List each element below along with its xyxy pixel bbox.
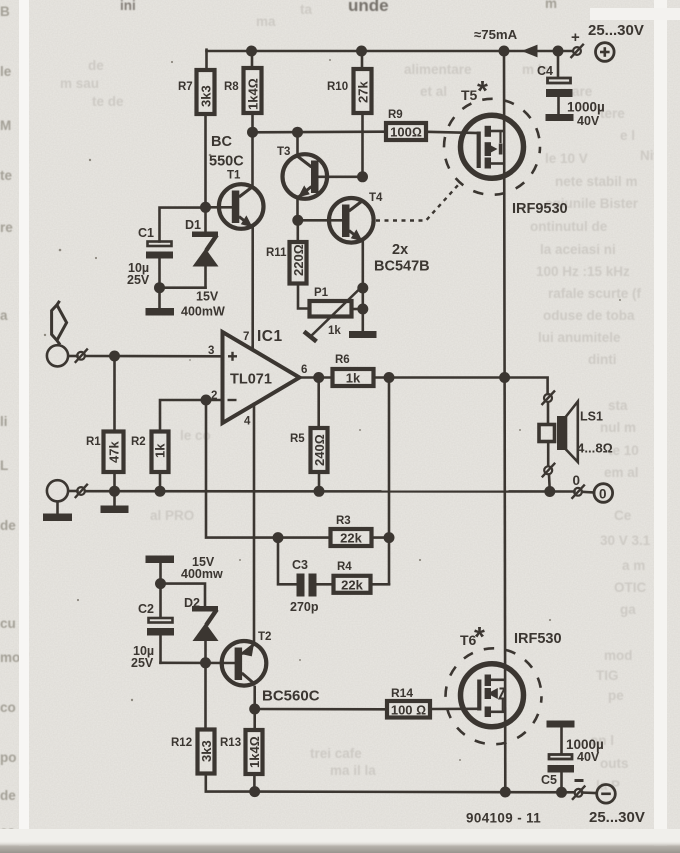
resistor R10 27k [327, 69, 372, 113]
resistor R3 22k [331, 515, 372, 546]
wire: C1 bottom lead [158, 258, 161, 288]
svg-text:100 Ω: 100 Ω [391, 703, 426, 718]
svg-text:R1: R1 [86, 436, 101, 448]
connector below LS1 [542, 463, 555, 478]
wire: R1 bottom lead [113, 472, 116, 491]
transistor T3 BC547B npn (mirrored) [277, 146, 327, 199]
right column white strip [654, 0, 667, 853]
wire: ground bar to C2/D2 node [159, 563, 162, 584]
svg-text:15V: 15V [196, 290, 219, 304]
svg-text:+: + [571, 29, 580, 46]
wire: top positive rail [207, 50, 573, 53]
node: R2 bottom on 0V rail [155, 486, 166, 497]
svg-text:rafale scurte (f: rafale scurte (f [548, 286, 642, 301]
transistor T4 BC547B npn [329, 192, 430, 275]
svg-text:ma il la: ma il la [330, 763, 376, 778]
node: LS1 return on 0V rail [544, 486, 555, 497]
connector at negative terminal [572, 786, 585, 800]
svg-text:T3: T3 [277, 146, 290, 158]
svg-text:27k: 27k [355, 81, 370, 103]
wire: IC1 output to R6 [299, 376, 331, 379]
svg-text:2: 2 [211, 390, 217, 402]
wire: lower jack ground stub [56, 502, 59, 515]
svg-text:BC547B: BC547B [374, 259, 430, 275]
svg-text:40V: 40V [577, 114, 600, 128]
wire: R11 node to T4 base [298, 219, 344, 222]
wire: R1 top lead [113, 356, 116, 431]
wire: C1/D1 ground link [160, 286, 206, 289]
positive supply terminal 25...30V [571, 22, 644, 61]
wire: C3 to R4 [316, 583, 332, 586]
svg-text:e l: e l [620, 128, 635, 143]
wire: IC1 pin4 down to T2 emitter [253, 404, 256, 642]
svg-text:22k: 22k [341, 577, 363, 592]
svg-text:R7: R7 [178, 81, 193, 93]
left page margin white strip [19, 0, 29, 853]
wire: T2 collector down to R13 node [253, 687, 256, 709]
mosfet T5 IRF9530 p-channel [444, 75, 568, 217]
svg-text:alimentare: alimentare [404, 62, 472, 77]
svg-text:ga: ga [620, 602, 636, 617]
svg-text:T4: T4 [369, 192, 383, 204]
svg-text:C2: C2 [138, 602, 154, 616]
svg-text:oduse de toba: oduse de toba [543, 308, 635, 323]
svg-text:cu: cu [0, 616, 16, 631]
transistor T2 BC560C pnp [222, 631, 320, 705]
node: R3 right / R4 right [384, 532, 395, 543]
svg-text:a m: a m [622, 558, 645, 573]
svg-text:BC560C: BC560C [262, 688, 320, 705]
wire: LS1 top connector to box [547, 403, 550, 424]
connector above LS1 [542, 391, 556, 406]
wire: T3 collector up wire [296, 132, 299, 155]
wire: R5 bottom lead [318, 472, 321, 492]
svg-text:de: de [0, 518, 16, 533]
wire: output corner to LS1 [505, 378, 548, 395]
wire: T1 base lead [206, 206, 233, 209]
svg-text:mod: mod [604, 648, 633, 663]
svg-text:3k3: 3k3 [198, 85, 213, 107]
svg-text:nete stabil m: nete stabil m [555, 174, 638, 189]
wire: R3 right lead [373, 536, 389, 539]
svg-text:1k4Ω: 1k4Ω [247, 736, 262, 768]
wire: node to D2 top corner [161, 584, 206, 606]
svg-text:4: 4 [244, 416, 251, 428]
wire: C5 bottom lead [560, 772, 563, 793]
wire: T1 collector up wire [251, 132, 254, 186]
wire: R7 top lead from rail corner [205, 50, 208, 70]
svg-text:C5: C5 [541, 773, 557, 787]
connector at 0V terminal [572, 485, 585, 499]
svg-text:IRF530: IRF530 [514, 631, 562, 647]
svg-text:400mW: 400mW [181, 305, 225, 319]
ground bar below C1 [146, 308, 175, 316]
ground bar below lower jack [43, 514, 72, 522]
svg-text:R13: R13 [220, 737, 241, 749]
wire: D1 bottom lead [204, 265, 207, 288]
node: R8 top on rail [246, 46, 257, 57]
svg-text:TIG: TIG [596, 668, 619, 683]
transistor T1 BC550C npn [209, 134, 264, 229]
svg-text:T1: T1 [227, 170, 241, 182]
svg-text:trei cafe: trei cafe [310, 746, 362, 761]
svg-text:Ce: Ce [614, 508, 632, 523]
node: T3 base / R10 / T4 collector [357, 171, 368, 182]
wire: R13 bottom lead [253, 774, 256, 792]
wire: R2 bottom lead [159, 472, 162, 491]
svg-text:nul m: nul m [600, 420, 636, 435]
wire: T1 base node to C1 top [160, 208, 206, 242]
resistor R7 3k3 [178, 70, 215, 114]
ground bar below P1 [349, 331, 377, 338]
wire: C1 node down to ground bar [158, 288, 161, 309]
wire: R4 right lead [373, 583, 390, 586]
thermal coupling dashed link T4 to T5 [376, 184, 459, 221]
node: P1 right / ground [357, 304, 368, 315]
wire: R5 top lead [317, 378, 320, 429]
wire: R12 top lead [204, 663, 207, 730]
svg-text:6: 6 [301, 364, 307, 376]
capacitor C4 1000u electrolytic [537, 64, 605, 128]
node: IC1 output [313, 372, 324, 383]
wire: feedback vertical from pin2 node down to R3 node [206, 400, 278, 538]
svg-text:22k: 22k [340, 531, 362, 546]
wire: T4 emitter down to P1 wiper node [361, 241, 364, 288]
node: C5 on negative rail [556, 787, 567, 798]
svg-text:le 10 V: le 10 V [545, 151, 588, 166]
resistor R14 100ohm [387, 686, 430, 718]
wire: feedback node down to R3/R4 right vertical [388, 378, 391, 538]
svg-text:sta: sta [608, 398, 628, 413]
svg-text:240Ω: 240Ω [312, 434, 327, 466]
wire: R10 bottom to T3 base / T4 collector node [361, 113, 364, 177]
svg-text:400mw: 400mw [181, 567, 223, 581]
svg-text:de: de [88, 58, 104, 73]
svg-text:R3: R3 [336, 515, 351, 527]
wire: R11 bottom lead to P1 left [298, 284, 308, 309]
node: C2 / ground bar [155, 578, 166, 589]
wire: R7 bottom to T1 base node [204, 114, 207, 209]
node: R12/R13 bottom on negative rail [249, 786, 260, 797]
resistor R4 22k [334, 561, 371, 593]
bottom scan shadow [0, 829, 680, 845]
node: R1 bottom on 0V rail [109, 486, 120, 497]
svg-text:L: L [0, 458, 8, 473]
svg-text:25V: 25V [131, 656, 154, 670]
svg-text:3k3: 3k3 [199, 740, 214, 762]
potentiometer P1 1k [304, 287, 360, 342]
input jack upper [47, 345, 88, 366]
svg-text:4...8Ω: 4...8Ω [577, 441, 613, 456]
wire: input jack to pin3 [69, 355, 78, 358]
wire: R12 bottom corner to negative rail [206, 774, 255, 792]
wire: R10 top lead [361, 51, 364, 69]
ground bar below R1 on 0V rail [101, 506, 129, 514]
svg-text:T5: T5 [461, 87, 478, 103]
wire: R11 top lead [296, 220, 299, 242]
scan specks [44, 59, 621, 761]
svg-text:220Ω: 220Ω [291, 244, 306, 276]
zener diode D1 15V 400mW [181, 218, 225, 319]
svg-text:R9: R9 [388, 109, 403, 121]
wire: negative rail [255, 790, 575, 793]
capacitor C1 10u electrolytic [127, 226, 173, 287]
wire: C2 bottom lead [159, 635, 162, 663]
wire: R13 top lead [253, 709, 256, 730]
mosfet T6 IRF530 n-channel [446, 621, 562, 744]
resistor R11 220ohm [266, 242, 307, 284]
wire: LS1 box to bottom connector [547, 443, 550, 466]
node: R6 right / feedback tap [384, 372, 395, 383]
svg-text:C4: C4 [537, 64, 553, 78]
svg-text:dinti: dinti [588, 352, 617, 367]
svg-text:*: * [477, 75, 488, 106]
wire: P1 wiper node down to P1 right node [361, 288, 364, 309]
svg-text:lui anumitele: lui anumitele [538, 330, 621, 345]
wire: D1 top lead [204, 207, 207, 232]
wire: 0V rail [69, 490, 78, 493]
svg-text:IC1: IC1 [257, 328, 283, 345]
resistor R2 1k [131, 432, 169, 473]
wire: P1 right lead [353, 308, 363, 311]
resistor R5 240ohm [290, 428, 328, 472]
resistor R12 3k3 [171, 730, 215, 774]
wire: 0V ground stub under R1 [113, 491, 116, 507]
svg-text:unde: unde [348, 0, 389, 15]
resistor R13 1k4 [220, 730, 263, 774]
input jack lower [47, 480, 88, 501]
svg-text:la aceiasi ni: la aceiasi ni [540, 242, 616, 257]
svg-text:ontinutul de: ontinutul de [530, 219, 608, 234]
wire: T3 emitter down to R11 node [296, 199, 299, 221]
input signal arrow [52, 301, 67, 345]
wire: C4 top lead [557, 51, 560, 77]
svg-text:re: re [0, 220, 13, 235]
supply arrow on top rail [522, 45, 538, 58]
svg-text:47k: 47k [107, 441, 122, 463]
svg-text:≈75mA: ≈75mA [474, 27, 518, 42]
svg-text:R10: R10 [327, 81, 348, 93]
svg-text:B: B [0, 4, 10, 19]
node: T2 collector / R13 / R14 [249, 704, 260, 715]
svg-text:270p: 270p [290, 600, 319, 614]
wire: bias line from T1 collector node to R9 [253, 130, 385, 133]
node: T1 collector / R8 bias node [247, 127, 258, 138]
svg-text:R14: R14 [391, 686, 413, 700]
svg-text:pe: pe [608, 688, 624, 703]
svg-text:R5: R5 [290, 433, 305, 445]
resistor R9 100ohm [386, 109, 426, 140]
capacitor C3 270p [290, 558, 319, 614]
resistor R6 1k [333, 354, 374, 386]
node: R10 top on rail [356, 46, 367, 57]
svg-text:m sau: m sau [60, 76, 99, 91]
node: T5 source on rail [499, 46, 510, 57]
svg-text:em al: em al [604, 465, 639, 480]
node: R5 bottom on 0V rail [314, 486, 325, 497]
resistor R8 1k4 [224, 68, 262, 113]
svg-text:TL071: TL071 [230, 372, 272, 388]
svg-text:te: te [0, 168, 12, 183]
svg-text:P1: P1 [314, 287, 329, 299]
svg-text:co: co [0, 700, 16, 715]
node: input / R1 top [109, 351, 120, 362]
svg-text:904109 - 11: 904109 - 11 [466, 811, 541, 826]
svg-text:le: le [0, 64, 12, 79]
op-amp U1 IC1 TL071 [208, 328, 307, 428]
wire: output vertical rail T5 drain to T6 drain [503, 51, 506, 378]
svg-text:te de: te de [92, 94, 124, 109]
wire: R8 bottom lead [251, 113, 254, 133]
svg-text:R12: R12 [171, 737, 192, 749]
svg-text:LS1: LS1 [580, 410, 603, 424]
node: T3 collector on bias line [292, 127, 303, 138]
wire: LS1 bottom connector to 0V rail [548, 475, 551, 492]
svg-text:25V: 25V [127, 273, 150, 287]
wire: C5 top ground stub [560, 727, 563, 754]
svg-text:OTIC: OTIC [614, 580, 646, 595]
svg-text:30 V 3.1: 30 V 3.1 [600, 533, 651, 548]
svg-text:D2: D2 [184, 596, 200, 610]
svg-text:C1: C1 [138, 226, 154, 240]
svg-text:T2: T2 [258, 631, 271, 643]
svg-text:a: a [0, 308, 8, 323]
svg-text:1k: 1k [328, 325, 341, 337]
wire: R3 left lead [278, 536, 329, 539]
svg-text:1k: 1k [346, 371, 361, 386]
svg-text:R11: R11 [266, 247, 287, 259]
svg-text:outs: outs [600, 756, 629, 771]
capacitor C5 1000u electrolytic [541, 737, 604, 787]
svg-text:3: 3 [208, 345, 214, 357]
node: D2 / R12 top [200, 657, 211, 668]
zener diode D2 15V 400mw [181, 555, 223, 641]
wire: pin2 stub and R2 link [160, 400, 223, 431]
ground bar above C2 [146, 556, 175, 564]
wire: R14 right lead to T6 gate [432, 707, 479, 710]
svg-text:100Ω: 100Ω [390, 125, 422, 140]
svg-text:M: M [0, 118, 11, 133]
wire: R13 node to R14 [255, 708, 385, 711]
wire: R9 right lead to T5 gate [428, 132, 479, 133]
svg-text:1000µ: 1000µ [567, 100, 605, 115]
wire: R6 right to output rail [375, 376, 505, 379]
capacitor C2 10u electrolytic [131, 602, 174, 670]
loudspeaker LS1 [539, 402, 613, 463]
svg-text:0: 0 [573, 473, 581, 488]
svg-text:40V: 40V [577, 750, 600, 764]
node: T3 emitter / R11 / T4 base [292, 215, 303, 226]
node: R3 left / C3 branch [273, 532, 284, 543]
node: T4 emitter / P1 wiper [357, 283, 368, 294]
svg-text:IRF9530: IRF9530 [512, 201, 568, 217]
ground bar below C4 [546, 114, 574, 121]
resistor R1 47k [86, 432, 124, 473]
wire: D2 bottom lead [204, 640, 207, 663]
node: pin2 / R2 / feedback [201, 395, 212, 406]
svg-text:et al: et al [420, 84, 447, 99]
wire: P1 right node down to ground bar [361, 309, 364, 332]
svg-text:550C: 550C [209, 154, 244, 170]
svg-text:25...30V: 25...30V [589, 809, 645, 826]
wire: negative rail to minus terminal [582, 791, 595, 794]
ground bar above C5 [547, 721, 575, 728]
svg-text:mo: mo [0, 650, 20, 665]
wire: T1 emitter down to IC1 pin7 [251, 228, 254, 350]
node: C1 / D1 ground [154, 282, 165, 293]
svg-text:R8: R8 [224, 81, 239, 93]
svg-text:BC: BC [211, 134, 232, 150]
svg-text:po: po [0, 750, 17, 765]
connector at top positive terminal [571, 44, 584, 58]
node: T6 source on negative rail [500, 787, 511, 798]
svg-text:al PRO: al PRO [150, 508, 194, 523]
node: T1 base / R7 / D1 / C1 [200, 202, 211, 213]
0V output terminal [573, 473, 613, 502]
wire: T3 base to T4 collector node [319, 176, 363, 179]
wire: C3 branch from feedback node [278, 538, 297, 585]
svg-text:1k4Ω: 1k4Ω [245, 78, 260, 110]
svg-text:D1: D1 [185, 218, 201, 232]
svg-text:C3: C3 [292, 558, 308, 572]
wire: C2 to T2 base node [161, 661, 235, 664]
svg-text:*: * [474, 621, 485, 652]
svg-text:m: m [545, 0, 557, 11]
wire: C2 top lead [159, 584, 162, 618]
svg-text:100 Hz :15 kHz: 100 Hz :15 kHz [536, 264, 630, 279]
wire: C4 bottom lead to ground bar [557, 97, 560, 115]
svg-text:0: 0 [599, 486, 607, 501]
svg-text:R6: R6 [335, 354, 350, 366]
svg-text:25...30V: 25...30V [588, 22, 644, 39]
svg-text:li: li [0, 414, 8, 429]
svg-text:ta: ta [300, 2, 312, 17]
node: C4 top on rail [553, 46, 564, 57]
negative supply terminal 25...30V [575, 779, 645, 826]
svg-text:R2: R2 [131, 436, 146, 448]
svg-text:2x: 2x [392, 242, 408, 258]
wire: 0V rail to 0 terminal [582, 490, 594, 493]
node: output rail to LS1 [499, 372, 510, 383]
wire: R8 top lead [251, 51, 254, 68]
svg-text:ma: ma [256, 14, 276, 29]
svg-text:1k: 1k [153, 443, 168, 458]
svg-text:R4: R4 [337, 561, 352, 573]
svg-text:ini: ini [120, 0, 136, 13]
svg-text:de: de [0, 788, 16, 803]
svg-text:7: 7 [243, 331, 249, 343]
